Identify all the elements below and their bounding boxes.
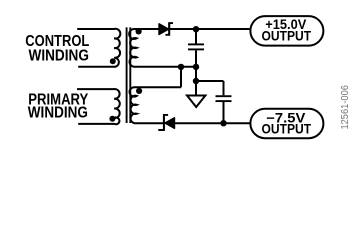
svg-text:OUTPUT: OUTPUT	[262, 28, 312, 43]
svg-text:OUTPUT: OUTPUT	[262, 122, 312, 137]
svg-text:WINDING: WINDING	[28, 105, 88, 122]
svg-text:12561-006: 12561-006	[340, 85, 351, 130]
svg-text:WINDING: WINDING	[29, 48, 89, 65]
